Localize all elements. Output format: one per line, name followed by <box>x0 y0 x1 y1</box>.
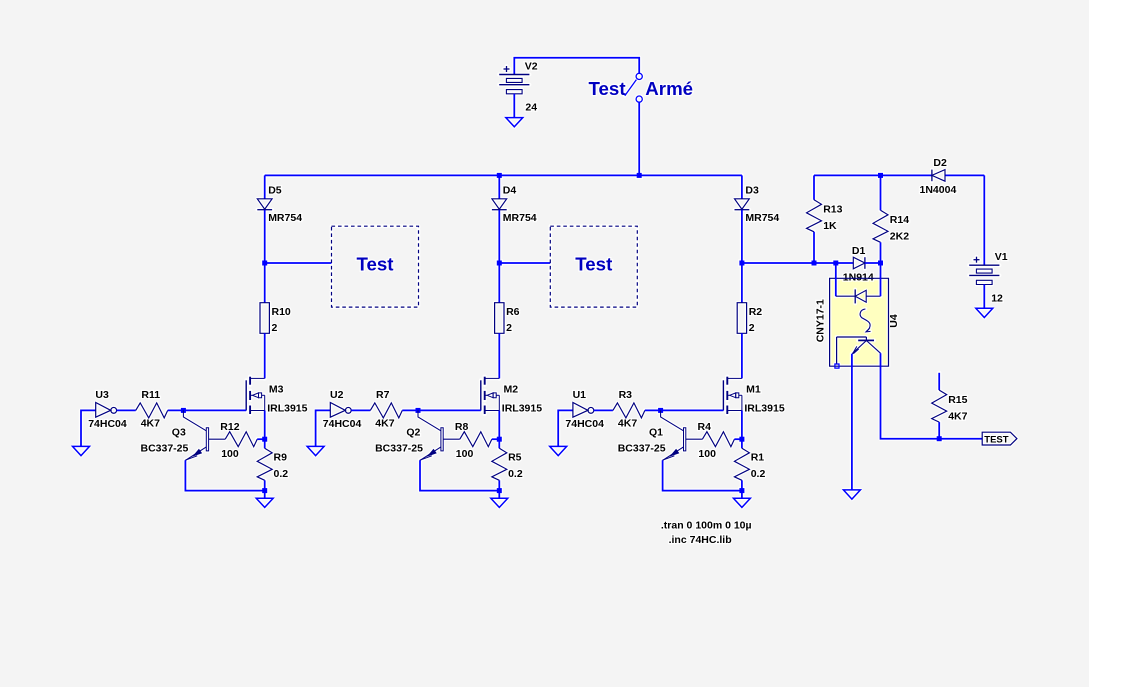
svg-text:V2: V2 <box>525 60 538 72</box>
svg-text:M3: M3 <box>269 384 284 396</box>
svg-text:BC337-25: BC337-25 <box>141 443 189 455</box>
svg-text:1N4004: 1N4004 <box>920 184 957 196</box>
svg-text:4K7: 4K7 <box>375 418 394 430</box>
svg-text:Q2: Q2 <box>406 427 420 439</box>
svg-text:M1: M1 <box>746 384 761 396</box>
svg-text:R12: R12 <box>220 421 239 433</box>
svg-text:R10: R10 <box>272 306 291 318</box>
svg-text:Test: Test <box>575 253 612 274</box>
svg-text:R7: R7 <box>376 389 390 401</box>
svg-text:D4: D4 <box>503 185 517 197</box>
svg-text:D5: D5 <box>268 185 282 197</box>
svg-text:R8: R8 <box>455 421 469 433</box>
svg-text:100: 100 <box>456 448 474 460</box>
svg-text:.tran 0 100m 0 10µ: .tran 0 100m 0 10µ <box>661 520 752 532</box>
svg-text:Test: Test <box>356 253 393 274</box>
svg-text:V1: V1 <box>995 251 1008 263</box>
svg-text:R11: R11 <box>141 389 160 401</box>
svg-text:Test: Test <box>589 78 626 99</box>
svg-text:BC337-25: BC337-25 <box>618 443 666 455</box>
svg-text:R5: R5 <box>508 452 522 464</box>
svg-text:2: 2 <box>272 322 278 334</box>
svg-text:74HC04: 74HC04 <box>323 418 362 430</box>
svg-text:Armé: Armé <box>645 78 693 99</box>
svg-text:R1: R1 <box>751 452 765 464</box>
svg-text:74HC04: 74HC04 <box>88 418 127 430</box>
svg-text:0.2: 0.2 <box>274 468 289 480</box>
svg-text:100: 100 <box>698 448 716 460</box>
svg-text:MR754: MR754 <box>503 212 537 224</box>
svg-text:4K7: 4K7 <box>141 418 160 430</box>
svg-text:2: 2 <box>749 322 755 334</box>
svg-text:100: 100 <box>221 448 239 460</box>
svg-text:0.2: 0.2 <box>751 468 766 480</box>
svg-text:IRL3915: IRL3915 <box>502 402 542 414</box>
svg-text:74HC04: 74HC04 <box>565 418 604 430</box>
svg-text:CNY17-1: CNY17-1 <box>814 299 826 342</box>
svg-text:R2: R2 <box>749 306 763 318</box>
svg-text:2K2: 2K2 <box>890 231 909 243</box>
svg-text:U2: U2 <box>330 389 344 401</box>
svg-text:M2: M2 <box>504 384 519 396</box>
svg-text:Q3: Q3 <box>172 427 186 439</box>
svg-text:4K7: 4K7 <box>618 418 637 430</box>
svg-text:.inc 74HC.lib: .inc 74HC.lib <box>669 534 732 546</box>
svg-text:R3: R3 <box>619 389 633 401</box>
svg-text:4K7: 4K7 <box>948 411 967 423</box>
svg-text:IRL3915: IRL3915 <box>744 402 784 414</box>
svg-text:D1: D1 <box>852 245 866 257</box>
svg-text:D2: D2 <box>933 157 947 169</box>
svg-text:R15: R15 <box>948 394 967 406</box>
svg-text:0.2: 0.2 <box>508 468 523 480</box>
svg-text:R9: R9 <box>274 452 288 464</box>
svg-text:IRL3915: IRL3915 <box>267 402 307 414</box>
svg-text:TEST: TEST <box>984 435 1008 446</box>
svg-text:U4: U4 <box>888 314 900 328</box>
svg-text:MR754: MR754 <box>268 212 302 224</box>
svg-text:R4: R4 <box>698 421 712 433</box>
svg-text:U3: U3 <box>95 389 109 401</box>
svg-text:MR754: MR754 <box>745 212 779 224</box>
svg-text:24: 24 <box>525 102 537 114</box>
svg-text:R13: R13 <box>823 204 842 216</box>
svg-text:1K: 1K <box>823 220 837 232</box>
svg-text:BC337-25: BC337-25 <box>375 443 423 455</box>
svg-text:Q1: Q1 <box>649 427 663 439</box>
svg-text:2: 2 <box>506 322 512 334</box>
svg-text:12: 12 <box>991 293 1003 305</box>
svg-text:D3: D3 <box>745 185 759 197</box>
svg-text:R14: R14 <box>890 214 909 226</box>
svg-text:U1: U1 <box>573 389 587 401</box>
svg-text:R6: R6 <box>506 306 520 318</box>
